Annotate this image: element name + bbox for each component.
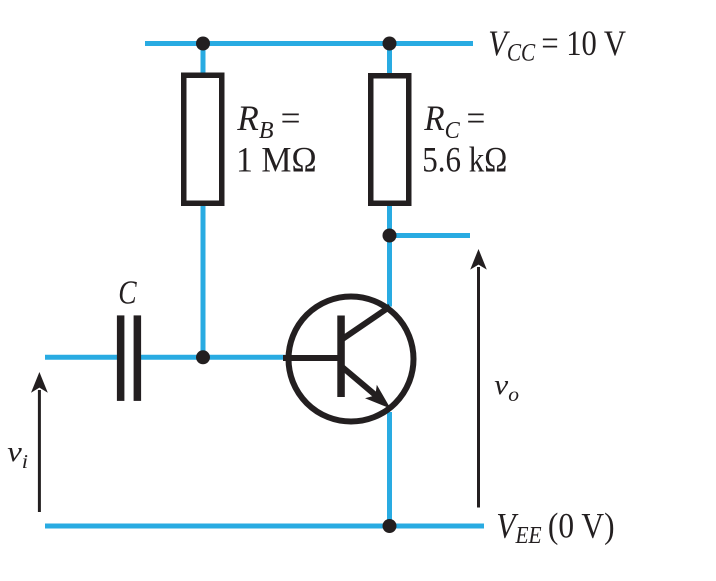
- svg-text:1 MΩ: 1 MΩ: [236, 139, 317, 179]
- svg-text:VEE (0 V): VEE (0 V): [496, 506, 614, 548]
- svg-text:5.6 kΩ: 5.6 kΩ: [422, 140, 507, 180]
- svg-text:C: C: [118, 273, 137, 311]
